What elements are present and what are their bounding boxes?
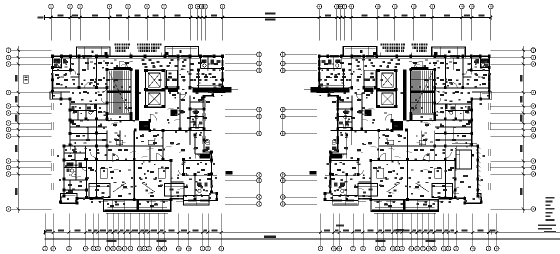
right-building envelope: left exterior wall xyxy=(472,56,490,203)
left-building lower-right unit partitions xyxy=(171,161,217,201)
right-building top-left bay window xyxy=(481,92,492,99)
right-building upper-left unit partitions xyxy=(435,56,490,92)
right-building lower-left terrace xyxy=(465,194,481,204)
bottom dimension line 1 with ticks xyxy=(44,230,560,235)
left-building elevator shaft E1 xyxy=(144,69,165,90)
right-building lower-left unit partitions xyxy=(435,146,478,199)
right-building door swing arcs xyxy=(333,61,485,176)
left-building envelope: top exterior wall xyxy=(53,56,223,58)
right-building room label marks xyxy=(324,57,491,207)
right-building upper-right bathroom fixtures xyxy=(321,60,340,68)
top dimension line with ticks xyxy=(45,15,493,20)
right-building elevator shaft E2 xyxy=(376,88,397,108)
right-building bottom bay room B xyxy=(358,184,378,197)
left-building lower-left terrace xyxy=(61,194,77,204)
left-building mid-right rooms partitions xyxy=(150,92,212,160)
right-building mid-left rooms partitions xyxy=(435,104,472,161)
right-building duct shafts beside core xyxy=(364,70,376,116)
right-building corridor walls below core xyxy=(407,114,436,121)
left-building annotation block above plan with leaders xyxy=(114,44,161,57)
right-building lower-right unit partitions xyxy=(325,161,371,201)
left-building lower-right fixtures xyxy=(197,139,210,192)
left-building bottom bay room B xyxy=(164,184,184,197)
right-building upper-right unit partitions xyxy=(316,56,363,92)
left-building upper-left unit partitions xyxy=(53,56,108,92)
left-building top-left balcony B1 xyxy=(77,47,111,58)
left-building upper-middle room labels xyxy=(142,59,216,85)
left-building lower-left bathroom fixtures xyxy=(67,163,82,194)
left axis bubbles and dimension line xyxy=(6,46,51,213)
left-building envelope: bottom exterior wall xyxy=(61,198,217,203)
bottom dimension value labels xyxy=(46,229,496,231)
right-building top-right balcony B2 xyxy=(343,47,377,57)
bottom axis bubbles xyxy=(43,239,499,251)
right-building bottom bay room A xyxy=(432,184,453,198)
top axis grid bubbles and stems xyxy=(49,4,493,40)
right-building structural column blobs xyxy=(318,55,491,205)
right-building stair with treads xyxy=(411,67,435,114)
left-building top-right balcony B2 xyxy=(165,47,199,57)
bottom extension lines from plan xyxy=(45,214,497,240)
bottom lower-line text blobs xyxy=(107,240,436,242)
right axis dimension texts vertical xyxy=(520,75,522,195)
middle axis bubbles right building side xyxy=(281,51,317,206)
left-building structural column blobs xyxy=(51,55,224,205)
left-building envelope: right exterior wall lower xyxy=(204,152,233,201)
right-building living rooms partitions xyxy=(371,131,446,201)
left-building upper-right unit partitions xyxy=(178,56,225,92)
left-building mid-left bathroom fixtures xyxy=(72,106,93,114)
left-building envelope: left exterior wall xyxy=(53,56,71,203)
right-building misc annotation speckle marks xyxy=(319,59,488,199)
right-building bottom balcony strip xyxy=(371,200,438,214)
right building corner room patch (open room, hatched wall) xyxy=(452,143,480,199)
right-building elevator shaft E1 xyxy=(376,69,397,90)
right-building mid-left bathroom fixtures xyxy=(450,106,471,114)
left-building door swing arcs xyxy=(57,61,209,176)
left side note box xyxy=(24,75,29,83)
left-building top-left bay window xyxy=(50,92,61,99)
right-building envelope: bottom exterior wall xyxy=(325,198,481,203)
left residential tower floor plan xyxy=(50,44,238,214)
right-building window frame marks on exterior walls xyxy=(318,55,490,202)
middle axis bubbles left building side xyxy=(225,51,261,206)
right-building envelope: top exterior wall xyxy=(319,56,489,58)
right-building upper-left bathroom fixtures (dark) xyxy=(476,59,489,69)
right-building envelope: right exterior wall lower xyxy=(309,152,338,201)
left-building living rooms partitions xyxy=(97,131,172,201)
left-building elevator shaft E2 xyxy=(144,88,165,108)
right-building mid-right bathroom fixtures xyxy=(339,111,348,126)
right-building lower-left bathroom fixtures xyxy=(460,163,475,194)
bottom-right notes column xyxy=(538,197,556,233)
right residential tower floor plan (mirrored twin) xyxy=(304,44,492,214)
right-building mid-right rooms partitions xyxy=(330,92,392,160)
left-building corridor walls below core xyxy=(106,114,135,121)
left-building upper-right bathroom fixtures xyxy=(202,60,221,68)
left-building bottom bay room A xyxy=(89,184,110,198)
left axis dimension texts vertical xyxy=(15,75,17,195)
left-building mid-right bathroom fixtures xyxy=(193,111,202,126)
top dimension value labels xyxy=(38,12,485,20)
left-building envelope: right exterior wall upper xyxy=(204,56,238,152)
left-building core spine wall xyxy=(135,70,150,131)
left-building window frame marks on exterior walls xyxy=(51,55,223,202)
left-building duct shafts beside core xyxy=(167,70,179,116)
left-building misc annotation speckle marks xyxy=(54,59,223,199)
left-building lower-right balcony xyxy=(184,196,210,206)
left-building stair with treads xyxy=(107,67,131,114)
left-building room label marks xyxy=(51,57,218,207)
right axis bubbles and dimension line xyxy=(490,46,535,213)
right-building annotation block above plan with leaders xyxy=(380,44,427,57)
left-building bottom balcony strip xyxy=(104,200,171,214)
right-building lower-right fixtures xyxy=(332,139,345,192)
bottom dimension line 2 overall xyxy=(45,224,560,239)
right-building lower-right balcony xyxy=(333,196,359,206)
left-building lower-left unit partitions xyxy=(64,146,107,199)
left-building mid-left rooms partitions xyxy=(70,104,107,161)
right-building upper-middle room labels xyxy=(327,59,401,85)
right-building envelope: right exterior wall upper xyxy=(304,56,338,152)
right-building top-left balcony B1 xyxy=(432,47,466,58)
right-building core spine wall xyxy=(392,70,407,131)
left-building upper-left bathroom fixtures (dark) xyxy=(54,59,67,69)
